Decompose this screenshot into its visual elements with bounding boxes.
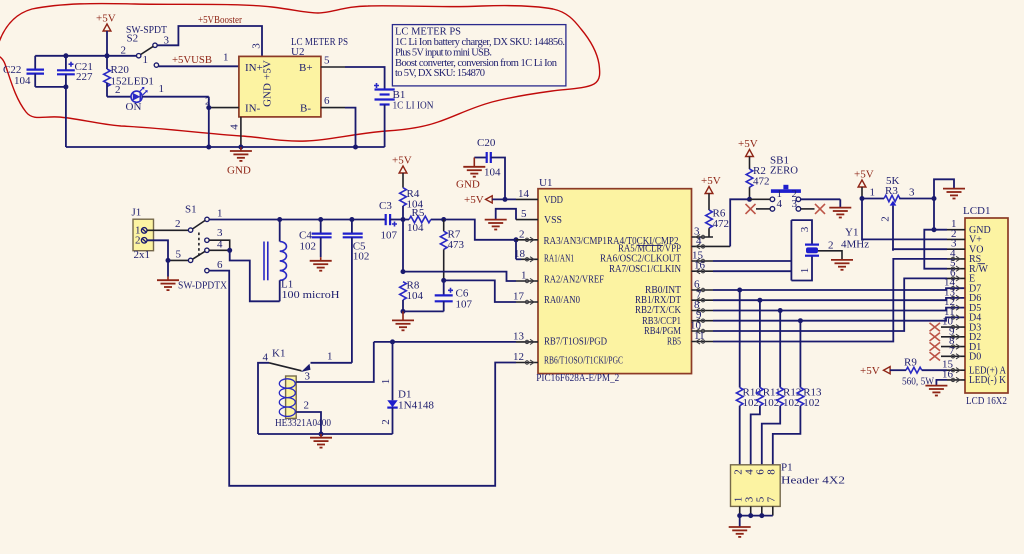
- svg-text:HE3321A0400: HE3321A0400: [275, 417, 331, 429]
- capacitor C22: [3, 56, 44, 87]
- svg-text:102: 102: [300, 240, 317, 252]
- svg-text:100 microH: 100 microH: [282, 289, 340, 301]
- pin stubs U1 left: [513, 188, 538, 365]
- svg-text:473: 473: [448, 239, 465, 251]
- svg-text:5: 5: [521, 208, 527, 220]
- svg-text:2: 2: [135, 234, 141, 246]
- wire SB1 net to PIC pin4 MCLR: [730, 199, 749, 246]
- no-connect X (LCD D2): [930, 333, 941, 341]
- wire S1 pin6 long loop to PIC RB6: [209, 271, 516, 486]
- svg-text:RA2/AN2/VREF: RA2/AN2/VREF: [544, 274, 604, 286]
- svg-text:LED(-) K: LED(-) K: [969, 375, 1007, 386]
- svg-text:LC METER PS: LC METER PS: [395, 27, 461, 38]
- wire RB4 to LCD E: [713, 278, 947, 331]
- svg-text:LED1: LED1: [127, 76, 154, 88]
- svg-text:1: 1: [380, 379, 392, 385]
- resistor R9 560,5W: [902, 357, 947, 388]
- svg-text:+5V: +5V: [262, 60, 274, 80]
- svg-text:104: 104: [407, 222, 424, 234]
- header P1 4X2: [731, 462, 846, 516]
- svg-text:VSS: VSS: [544, 214, 562, 226]
- svg-text:7: 7: [766, 496, 778, 502]
- svg-text:17: 17: [513, 291, 525, 303]
- node junction C21 top: [63, 53, 68, 58]
- svg-text:102: 102: [353, 251, 370, 263]
- svg-text:Y1: Y1: [845, 227, 858, 239]
- svg-text:2: 2: [175, 218, 181, 230]
- svg-text:14: 14: [518, 188, 530, 200]
- ground GND (PSU): [227, 147, 252, 177]
- svg-text:GND: GND: [227, 165, 251, 177]
- resistor R8: [400, 280, 424, 312]
- connector J1 2x1: [132, 207, 154, 262]
- wire S1 common to L1 bottom: [230, 250, 280, 301]
- svg-text:1: 1: [521, 270, 527, 282]
- svg-text:+5V: +5V: [96, 13, 116, 25]
- power port +5V (R6): [701, 175, 721, 210]
- node junction +5V/R20: [105, 53, 110, 58]
- battery B1: [374, 83, 434, 147]
- svg-text:S1: S1: [185, 204, 197, 216]
- svg-text:GND: GND: [456, 179, 480, 191]
- svg-text:6: 6: [324, 95, 330, 107]
- ground under J1/S1: [157, 260, 179, 290]
- no-connect X (LCD D3): [930, 323, 941, 331]
- svg-text:472: 472: [713, 218, 730, 230]
- svg-text:to 5V, DX SKU: 154870: to 5V, DX SKU: 154870: [395, 68, 485, 79]
- svg-text:C3: C3: [379, 200, 392, 212]
- ground under C20: [456, 158, 485, 191]
- svg-text:2: 2: [880, 216, 892, 222]
- svg-text:3: 3: [305, 371, 311, 383]
- svg-text:102: 102: [743, 397, 760, 409]
- ground under P1: [729, 516, 751, 537]
- svg-text:4: 4: [696, 235, 702, 247]
- svg-text:PIC16F628A-E/PM_2: PIC16F628A-E/PM_2: [536, 372, 619, 384]
- crystal Y1 4MHz: [713, 220, 869, 280]
- svg-text:227: 227: [76, 71, 93, 83]
- svg-text:U1: U1: [539, 177, 552, 189]
- svg-text:2: 2: [121, 45, 127, 57]
- svg-text:Header 4X2: Header 4X2: [781, 475, 845, 487]
- pushbutton SB1 ZERO: [750, 155, 841, 212]
- wire R3 wiper to LCD VO: [893, 249, 947, 250]
- LCD1 LCD 16X2: [963, 205, 1008, 407]
- svg-text:LCD 16X2: LCD 16X2: [966, 395, 1007, 407]
- potentiometer R3 5K: [860, 175, 935, 251]
- power port +5V (R9): [860, 365, 906, 377]
- svg-text:+5V: +5V: [854, 169, 874, 181]
- svg-text:U2: U2: [291, 46, 304, 58]
- svg-text:18: 18: [514, 248, 526, 260]
- diode D1 1N4148: [380, 342, 434, 434]
- svg-text:C20: C20: [477, 137, 496, 149]
- svg-text:RA0/AN0: RA0/AN0: [544, 294, 580, 306]
- svg-text:+5V: +5V: [464, 194, 484, 206]
- pin U2 B+ pin5 and wire to battery: [321, 55, 385, 90]
- svg-text:ON: ON: [126, 101, 142, 113]
- svg-text:J1: J1: [132, 207, 142, 219]
- svg-text:4MHz: 4MHz: [841, 239, 869, 251]
- ground under C4: [310, 257, 332, 270]
- svg-text:12: 12: [513, 351, 524, 363]
- svg-text:D0: D0: [969, 352, 981, 363]
- wire top rail PSU: [35, 55, 136, 57]
- svg-text:107: 107: [456, 299, 473, 311]
- ground under K1: [310, 434, 332, 448]
- svg-text:SW-DPDTX: SW-DPDTX: [178, 280, 227, 292]
- red freehand highlight loop around power-supply section: [0, 4, 600, 142]
- wire RB3 to LCD D4 with tap R13: [713, 317, 965, 320]
- wire VSS to ground: [485, 209, 516, 230]
- svg-text:RB5: RB5: [667, 335, 681, 347]
- switch S1 SW-DPDTX: [175, 204, 227, 292]
- svg-text:3: 3: [909, 187, 915, 199]
- wire C3 node down to RA2 rail: [402, 220, 404, 272]
- capacitor C6 (polarized): [435, 280, 473, 311]
- resistor R4: [400, 188, 424, 220]
- wire C6 node to PIC pin17: [444, 280, 516, 302]
- wire C5 bottom to relay contact: [351, 237, 353, 362]
- svg-text:104: 104: [407, 290, 424, 302]
- svg-text:1: 1: [159, 83, 165, 95]
- svg-text:R9: R9: [904, 357, 917, 369]
- pin stubs U1 right: [690, 226, 730, 345]
- svg-text:3: 3: [217, 227, 223, 239]
- wire RB0 to LCD D7 with tap R10: [713, 288, 965, 290]
- svg-text:RA7/OSC1/CLKIN: RA7/OSC1/CLKIN: [609, 263, 681, 275]
- svg-text:K1: K1: [272, 348, 285, 360]
- ground right of SB1: [829, 199, 851, 217]
- svg-text:2x1: 2x1: [134, 249, 151, 261]
- resistor R10: [736, 290, 761, 465]
- svg-text:P1: P1: [781, 462, 793, 474]
- no-connect X (SB1 pin4): [746, 204, 756, 214]
- switch S2 SW-SPDT: [121, 24, 170, 67]
- svg-text:1C LI ION: 1C LI ION: [393, 100, 434, 112]
- power port +5V (VDD): [464, 194, 516, 206]
- svg-text:ZERO: ZERO: [770, 165, 798, 177]
- power port +5V (R3): [854, 169, 874, 199]
- svg-text:+5VBooster: +5VBooster: [198, 14, 242, 26]
- svg-text:+5V: +5V: [738, 138, 758, 150]
- svg-text:1: 1: [217, 207, 223, 219]
- svg-text:S2: S2: [127, 33, 139, 45]
- wire J1 pin1 to S1 pin2: [147, 229, 188, 231]
- power port +5V (R2): [738, 138, 758, 169]
- pin stubs LCD left: [941, 218, 965, 382]
- svg-text:IN-: IN-: [245, 103, 261, 115]
- svg-text:3: 3: [792, 198, 798, 210]
- resistor R6: [706, 208, 729, 238]
- svg-text:RB6/T1OSO/T1CKI/PGC: RB6/T1OSO/T1CKI/PGC: [544, 354, 623, 366]
- svg-text:+5V: +5V: [701, 175, 721, 187]
- svg-text:102: 102: [803, 397, 820, 409]
- svg-text:8: 8: [766, 469, 778, 475]
- wire RB1 to LCD D6 with tap R11: [713, 298, 965, 300]
- resistor R2: [746, 165, 769, 199]
- power port +5V (top left): [96, 13, 116, 56]
- svg-text:2: 2: [304, 400, 310, 412]
- svg-text:1: 1: [327, 351, 333, 363]
- svg-text:6: 6: [217, 259, 223, 271]
- svg-text:R5: R5: [412, 207, 425, 219]
- svg-text:11: 11: [694, 330, 705, 342]
- svg-text:RB7/T1OSI/PGD: RB7/T1OSI/PGD: [544, 335, 607, 347]
- svg-text:1: 1: [143, 54, 149, 66]
- svg-text:16: 16: [694, 260, 706, 272]
- wire R8/C6 bottom rail: [403, 310, 444, 312]
- ground top right (R3 pin3): [934, 179, 965, 198]
- wire S1 pin3/pin4 tie: [209, 240, 230, 250]
- LED1: [107, 76, 209, 114]
- pin U2 B- pin6 and wire down: [321, 95, 356, 147]
- svg-text:LCD1: LCD1: [963, 205, 991, 217]
- svg-text:7: 7: [949, 345, 955, 357]
- no-connect X (LCD D1): [930, 342, 941, 350]
- wire J1 pin2 down to S1 pin5: [147, 240, 168, 260]
- wire C22/C21 bottom link: [35, 86, 66, 88]
- svg-text:2: 2: [380, 419, 392, 425]
- svg-text:2: 2: [828, 240, 834, 252]
- svg-text:5: 5: [176, 249, 182, 261]
- svg-text:1C Li Ion battery charger, DX: 1C Li Ion battery charger, DX SKU: 14485…: [395, 37, 565, 48]
- svg-text:1: 1: [870, 187, 876, 199]
- svg-text:472: 472: [753, 175, 770, 187]
- svg-text:VDD: VDD: [544, 194, 563, 206]
- resistor R5: [403, 207, 444, 234]
- power port +5V (R4): [392, 155, 412, 188]
- wire LCD LED- to ground: [925, 380, 947, 396]
- svg-text:R20: R20: [111, 64, 130, 76]
- wire PSU ground rail: [66, 146, 385, 148]
- svg-text:4: 4: [229, 124, 241, 130]
- svg-text:+5VUSB: +5VUSB: [172, 54, 212, 66]
- resistor R13: [773, 321, 822, 465]
- wire RB2 to LCD D5 with tap R12: [713, 308, 965, 311]
- svg-text:B-: B-: [300, 103, 311, 115]
- wire U2 IN- stub and LED drop: [208, 97, 210, 147]
- svg-text:13: 13: [513, 330, 525, 342]
- svg-text:+5V: +5V: [392, 155, 412, 167]
- svg-text:2: 2: [205, 96, 211, 108]
- svg-text:104: 104: [484, 167, 501, 179]
- svg-text:B+: B+: [299, 62, 313, 74]
- wire RA2 rail to PIC pin1: [403, 272, 516, 281]
- inductor L1 100 microH: [264, 220, 340, 302]
- wire GND net to LCD pin1 and R/W: [934, 199, 947, 230]
- pin U2 GND pin4: [240, 117, 242, 147]
- capacitor C20: [474, 137, 505, 199]
- wire R5/R7 node to PIC pins 2 and 18: [444, 220, 516, 240]
- resistor R12: [762, 311, 802, 465]
- svg-text:3: 3: [251, 43, 263, 49]
- wire D1/K1 coil to PIC pin13: [374, 341, 516, 343]
- svg-text:5: 5: [324, 55, 330, 67]
- svg-text:4: 4: [777, 198, 783, 210]
- capacitor C3 (polarized): [379, 200, 403, 242]
- note text box LC METER PS: [392, 25, 566, 86]
- wire left drop to ground rail: [65, 87, 67, 147]
- no-connect X (LCD D0): [930, 352, 941, 360]
- svg-text:2: 2: [519, 228, 525, 240]
- capacitor C5: [343, 220, 370, 263]
- voltage regulator U2 LC METER PS: [229, 36, 349, 130]
- svg-text:Plus 5V input to mini USB.: Plus 5V input to mini USB.: [395, 47, 492, 58]
- IC U1 PIC16F628A: [536, 177, 691, 384]
- relay K1 HE3321A0400: [258, 342, 374, 434]
- svg-text:3: 3: [799, 226, 811, 232]
- capacitor C21 (polarized): [57, 56, 93, 87]
- svg-text:107: 107: [381, 230, 398, 242]
- svg-text:4: 4: [263, 352, 269, 364]
- resistor R20: [104, 56, 130, 97]
- svg-text:IN+: IN+: [245, 62, 263, 74]
- svg-text:102: 102: [763, 397, 780, 409]
- svg-text:Boost converter, conversion fr: Boost converter, conversion from 1C Li I…: [395, 58, 558, 69]
- wire P1 ground rail: [740, 515, 773, 517]
- capacitor C4: [299, 220, 332, 258]
- ground under R8: [392, 311, 414, 330]
- svg-text:104: 104: [14, 75, 31, 87]
- resistor R11: [751, 300, 781, 465]
- svg-text:RA1/AN1: RA1/AN1: [544, 253, 574, 265]
- svg-text:1N4148: 1N4148: [398, 400, 434, 412]
- wire S2 pin3 to booster rail to U2 pin3: [157, 26, 262, 56]
- svg-text:RB2/TX/CK: RB2/TX/CK: [635, 304, 681, 316]
- svg-text:102: 102: [783, 397, 800, 409]
- svg-text:1: 1: [799, 268, 811, 274]
- wire S1 pin1 top rail to C3: [209, 219, 385, 221]
- svg-text:+5V: +5V: [860, 365, 880, 377]
- svg-text:2: 2: [115, 84, 121, 96]
- no-connect X (SB1 pin3): [815, 204, 825, 214]
- wire K1/D1 ground rail: [258, 433, 393, 435]
- svg-text:1: 1: [223, 52, 229, 64]
- wire +5V to LCD V+: [862, 199, 947, 240]
- svg-text:GND: GND: [262, 83, 274, 107]
- wire S2 pin1 to U2 IN+: [159, 65, 239, 67]
- wire RB5 to LCD RS: [713, 259, 947, 342]
- resistor R7: [440, 220, 464, 281]
